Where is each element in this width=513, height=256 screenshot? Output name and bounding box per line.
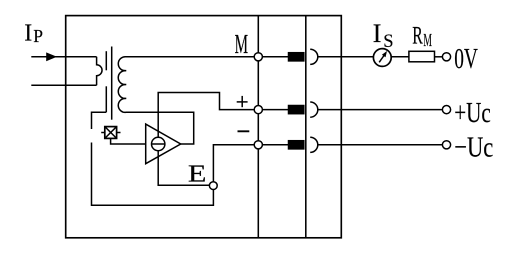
primary input wire (arrow line)	[31, 56, 96, 58]
wire meter to resistor	[391, 56, 409, 58]
svg-text:M: M	[235, 30, 248, 60]
svg-text:M: M	[423, 31, 432, 51]
op-amp U1	[146, 124, 181, 164]
wire hall-left upper segment to core	[92, 112, 107, 129]
terminal 0V circle	[442, 53, 450, 61]
core line left (lower segment)	[105, 86, 107, 112]
terminal + circle	[254, 106, 262, 114]
ammeter Is	[373, 49, 391, 67]
wire + row to +Uc	[318, 109, 443, 111]
svg-text:R: R	[412, 21, 423, 50]
svg-text:S: S	[383, 32, 393, 52]
svg-text:P: P	[33, 26, 43, 46]
core line right	[111, 47, 113, 120]
primary return wire	[31, 84, 96, 86]
connector divider line 2	[305, 16, 307, 238]
svg-text:0V: 0V	[454, 43, 478, 75]
resistor RM	[409, 51, 435, 62]
core line left (upper segment)	[105, 51, 107, 70]
wire - row to -Uc	[318, 144, 443, 146]
svg-text:−Uc: −Uc	[454, 131, 493, 163]
wire secondary top to M terminal	[126, 56, 255, 58]
wire + supply: +terminal to amp top	[158, 93, 254, 138]
wire M row to meter	[318, 56, 373, 58]
socket arc M	[310, 49, 318, 64]
wire feedback: amp output up to secondary bottom	[126, 112, 194, 144]
primary winding P1	[97, 57, 102, 86]
connector divider line 1	[257, 16, 259, 238]
secondary winding	[118, 57, 126, 113]
connector pin -	[289, 141, 304, 149]
svg-text:I: I	[373, 18, 382, 48]
wire hall bottom lead to amp input	[111, 138, 146, 144]
wire M circle to pin	[262, 56, 288, 58]
wire resistor to 0V terminal	[435, 56, 443, 58]
hall right stub lead	[117, 132, 121, 134]
wire + circle to pin	[262, 109, 288, 111]
hall left stub lead	[101, 132, 105, 134]
socket arc -	[310, 137, 318, 152]
terminal E circle	[209, 182, 217, 190]
transducer enclosure box	[66, 16, 342, 238]
primary input arrowhead	[46, 52, 57, 61]
terminal M circle	[254, 53, 262, 61]
wire amp bottom to E node	[158, 151, 209, 186]
svg-text:E: E	[188, 159, 207, 187]
wire - circle to pin	[262, 144, 288, 146]
terminal +Uc circle	[442, 106, 450, 114]
wire - supply: -terminal to E node	[213, 145, 254, 182]
socket arc +	[310, 102, 318, 117]
label - (terminal)	[238, 130, 250, 132]
terminal -Uc circle	[442, 141, 450, 149]
hall element X1	[101, 127, 120, 139]
wire E node down to bottom rail and to hall left wire	[92, 143, 214, 206]
svg-text:I: I	[24, 20, 32, 46]
svg-text:+Uc: +Uc	[454, 97, 491, 129]
terminal - circle	[254, 141, 262, 149]
connector pin +	[289, 106, 304, 114]
connector pin M	[289, 53, 304, 61]
label + (terminal)	[237, 96, 248, 107]
